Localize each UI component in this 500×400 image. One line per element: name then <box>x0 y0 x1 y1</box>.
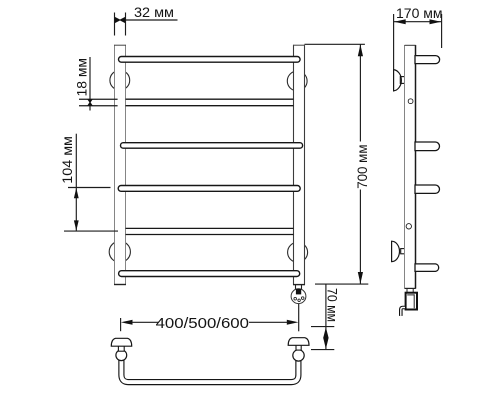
rung 5 (back rung): upper outline <box>126 227 294 229</box>
dimension 18mm: dimension line <box>89 57 91 111</box>
dimension 400/500/600: left dimension line segment <box>132 321 159 323</box>
dimension 700mm: down arrowhead <box>358 272 363 284</box>
wall bracket circle top-right <box>287 71 307 91</box>
dimension 32mm: right arrowhead <box>119 17 125 23</box>
dimension 700mm: up arrowhead <box>358 45 363 57</box>
svg-text:18 мм: 18 мм <box>74 58 90 97</box>
wall bracket circle bottom-right <box>288 242 308 262</box>
left bracket neck <box>118 346 124 351</box>
right bracket dome <box>288 338 309 346</box>
dimension 700mm: bottom extension line <box>315 283 368 285</box>
valve under right tube <box>291 285 306 304</box>
wall bracket circle bottom-left <box>109 241 130 262</box>
dimension 170mm: dimension line <box>394 21 441 23</box>
dimension 70mm: dimension line <box>325 284 327 350</box>
dimension 18mm: lower arrowhead <box>87 102 93 106</box>
dimension 32mm: leader line <box>125 19 177 21</box>
svg-text:32 мм: 32 мм <box>134 4 174 20</box>
side stub rung 1 <box>415 56 440 64</box>
dimension 104mm: upper extension line <box>68 187 111 189</box>
left bracket dome <box>111 338 131 346</box>
rung 1 (front pill) <box>119 57 301 63</box>
rung 3 (front pill) <box>121 143 303 149</box>
dimension 104mm: down arrowhead <box>74 220 79 230</box>
side wall bracket bottom (dome + neck) <box>392 241 405 261</box>
dimension 32mm: right extension line <box>125 13 127 36</box>
dimension 170mm: left arrowhead <box>394 19 406 24</box>
dimension 170mm: left extension line <box>393 14 395 70</box>
side stub rung 4 <box>415 264 439 272</box>
svg-text:70 мм: 70 мм <box>325 288 340 322</box>
power cable <box>401 308 405 316</box>
dimension 18mm: upper extension line <box>79 98 118 100</box>
dimension 400/500/600: right dimension line segment <box>249 321 288 323</box>
dimension 70mm: lower tick line <box>311 349 334 351</box>
dimension 400/500/600: left arrowhead <box>121 320 133 325</box>
dimension 32mm: left arrowhead <box>115 17 121 23</box>
dimension 70mm: upper tick line <box>311 326 334 328</box>
side vertical tube <box>405 45 416 289</box>
svg-text:104 мм: 104 мм <box>59 136 75 184</box>
right vertical tube <box>293 45 305 285</box>
dimension 32mm: left extension line <box>114 13 116 36</box>
right ball joint <box>293 350 304 361</box>
side stub rung 2 <box>415 142 440 151</box>
svg-text:400/500/600: 400/500/600 <box>156 315 249 332</box>
rung 4 (front pill) <box>118 186 300 192</box>
left ball joint <box>116 350 127 361</box>
dimension 170mm: right arrowhead <box>430 19 442 24</box>
left vertical tube <box>114 45 126 285</box>
dimension 700mm: top extension line <box>305 43 365 45</box>
rung 6 (front pill) <box>119 271 300 277</box>
dimension 18mm: upper arrowhead <box>87 99 93 103</box>
dimension 400/500/600: left extension line <box>120 318 122 331</box>
dimension 104mm: up arrowhead <box>74 188 79 198</box>
rung 2 (back rung): lower outline <box>126 105 294 107</box>
dimension 700mm: upper dimension line segment <box>359 45 361 142</box>
rung 5 (back rung): lower outline <box>126 234 294 236</box>
heating element (TEN) under side tube <box>406 289 417 310</box>
wall bracket circle top-left <box>110 70 130 90</box>
right bracket neck <box>296 345 301 350</box>
dimension 400/500/600: right arrowhead <box>287 320 299 325</box>
dimension 170mm: right extension line <box>441 14 443 48</box>
dimension 104mm: lower extension line <box>64 230 118 232</box>
dimension 400/500/600: right extension line <box>298 304 300 332</box>
screw detail top <box>408 99 413 104</box>
svg-text:170 мм: 170 мм <box>396 5 443 21</box>
dimension 104mm: dimension line <box>75 134 77 231</box>
svg-text:700 мм: 700 мм <box>354 145 370 189</box>
dimension 18mm: lower extension line <box>79 105 118 107</box>
rung 2 (back rung): upper outline <box>126 98 294 100</box>
screw detail bottom <box>406 224 411 229</box>
side wall bracket top (dome + neck) <box>394 70 405 91</box>
dimension 70mm: double arrowhead diamond <box>323 327 328 349</box>
U-shaped tube <box>121 355 298 382</box>
side stub rung 3 <box>415 185 439 193</box>
dimension 700mm: lower dimension line segment <box>359 190 361 284</box>
